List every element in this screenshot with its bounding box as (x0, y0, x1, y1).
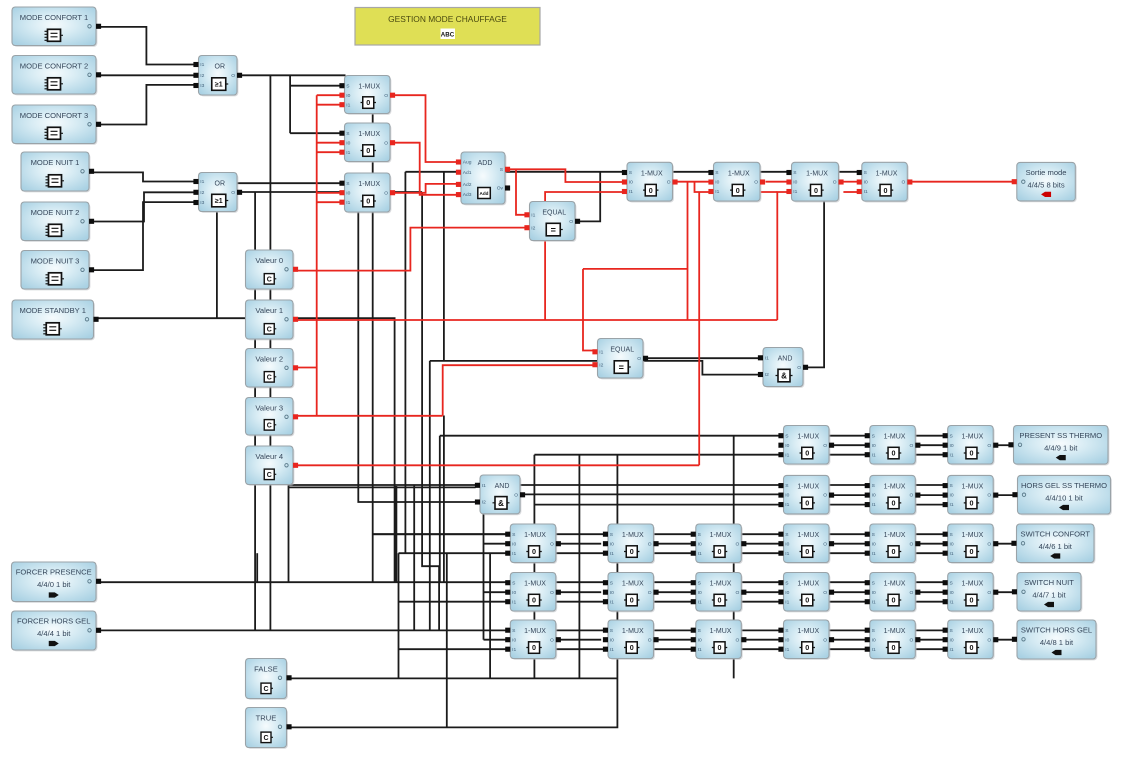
wire EQUAL1 output up (576, 172, 600, 222)
svg-text:=: = (619, 362, 624, 372)
svg-text:0: 0 (532, 596, 536, 605)
wire AND1 output to row2 I0 (525, 493, 779, 495)
red riser to B1.I1 (545, 192, 623, 320)
svg-text:0: 0 (884, 186, 888, 195)
svg-text:Ad1: Ad1 (463, 170, 472, 176)
svg-text:I0: I0 (872, 637, 876, 643)
mux r4c5 (865, 573, 921, 613)
mux r1c6 (943, 426, 999, 466)
wire tap to 1-MUX A1 S (290, 85, 340, 87)
wire row4 mux O to I0 a (556, 591, 602, 593)
svg-text:0: 0 (366, 146, 370, 155)
red B1 fork down to Valeur1 line (687, 182, 689, 320)
svg-text:MODE CONFORT 2: MODE CONFORT 2 (20, 61, 89, 70)
wire MODE CONFORT 1 to OR1.I1 (96, 27, 194, 65)
red B1 output to B2.I0 (678, 181, 709, 183)
svg-text:I1: I1 (512, 599, 516, 605)
svg-text:1-MUX: 1-MUX (358, 131, 380, 138)
wire row5 I1 line (399, 648, 944, 650)
svg-text:FORCER PRESENCE: FORCER PRESENCE (16, 568, 92, 577)
svg-text:Valeur 3: Valeur 3 (255, 403, 283, 412)
wire row4 mux O to I0 d (829, 591, 865, 593)
red A1 output to ADD.Aug (395, 95, 457, 162)
svg-text:I0: I0 (346, 93, 350, 99)
svg-text:1-MUX: 1-MUX (884, 483, 906, 490)
red branch to EQUAL2.I1 (583, 268, 688, 270)
svg-text:MODE NUIT 2: MODE NUIT 2 (31, 208, 80, 217)
svg-text:I0: I0 (698, 541, 702, 547)
svg-text:Sortie mode: Sortie mode (1026, 168, 1067, 177)
mux A2 (339, 123, 395, 163)
red stub to A3.I0 (317, 192, 340, 194)
svg-text:I1: I1 (346, 102, 350, 108)
svg-text:O: O (833, 180, 837, 186)
wire EQUAL2 output to AND2.I1 (644, 357, 759, 359)
mux A1 (339, 76, 395, 115)
svg-text:I1: I1 (872, 599, 876, 605)
svg-text:O: O (909, 541, 913, 547)
wire riser 396 (395, 486, 397, 582)
wire riser 579 (578, 455, 580, 679)
red B4 output to Sortie mode (912, 181, 1012, 183)
svg-text:1-MUX: 1-MUX (962, 434, 984, 441)
wire tap to SWITCH CONFORT S (373, 533, 506, 535)
output SWITCH NUIT (1012, 573, 1083, 613)
svg-text:4/4/4 1 bit: 4/4/4 1 bit (37, 629, 71, 638)
wire row3 mux O to I0 d (829, 543, 865, 545)
input MODE CONFORT 3 (12, 105, 101, 145)
wire row3 I1 line (399, 552, 944, 554)
wire OR1 output riser down (269, 75, 271, 630)
svg-text:I1: I1 (950, 452, 954, 458)
svg-text:MODE CONFORT 3: MODE CONFORT 3 (20, 111, 89, 120)
svg-text:I1: I1 (698, 647, 702, 653)
comparator EQUAL2 (592, 339, 648, 380)
svg-text:O: O (987, 493, 991, 499)
svg-text:C: C (263, 686, 268, 693)
svg-text:MODE NUIT 1: MODE NUIT 1 (31, 158, 80, 167)
or-gate OR2 (193, 173, 242, 213)
mux r5c2 (603, 620, 659, 660)
wire to AND2.I2 (430, 361, 759, 375)
red Valeur 4 riser to B2.I1 line (698, 192, 700, 465)
wire FALSE output line (291, 677, 617, 679)
mux r3c1 (505, 524, 561, 564)
wire MODE NUIT 1 to OR2.I1 (89, 172, 194, 181)
svg-text:0: 0 (718, 596, 722, 605)
svg-text:ABC: ABC (441, 32, 455, 39)
svg-text:I0: I0 (346, 140, 350, 146)
wire TRUE output line (291, 455, 617, 728)
svg-text:1-MUX: 1-MUX (797, 483, 819, 490)
svg-text:I1: I1 (785, 599, 789, 605)
svg-text:I0: I0 (610, 637, 614, 643)
svg-text:1-MUX: 1-MUX (358, 181, 380, 188)
svg-text:I0: I0 (629, 180, 633, 186)
svg-text:I1: I1 (200, 179, 204, 185)
svg-text:1-MUX: 1-MUX (622, 532, 644, 539)
red Valeur 3 line (293, 415, 443, 417)
svg-text:Aug: Aug (463, 160, 472, 166)
wire S-chain riser at 405 (404, 172, 406, 553)
svg-text:4/4/7 1 bit: 4/4/7 1 bit (1032, 591, 1066, 600)
svg-text:Add: Add (480, 191, 489, 196)
mux r4c4 (778, 573, 834, 613)
svg-text:0: 0 (805, 449, 809, 458)
svg-text:0: 0 (532, 547, 536, 556)
svg-text:AND: AND (495, 483, 510, 490)
svg-text:1-MUX: 1-MUX (962, 483, 984, 490)
wire OR1 to A-mux S taps (289, 75, 291, 133)
svg-text:0: 0 (805, 596, 809, 605)
wire row2 to HORS GEL SS THERMO (994, 494, 1014, 496)
wire row2 mux O to I0 a (829, 494, 865, 496)
svg-text:0: 0 (718, 547, 722, 556)
svg-text:I0: I0 (698, 637, 702, 643)
svg-text:I0: I0 (610, 590, 614, 596)
constant TRUE (246, 708, 292, 749)
red tap A2.I0 (317, 142, 340, 144)
svg-text:OR: OR (215, 181, 226, 188)
svg-text:0: 0 (805, 643, 809, 652)
wire row4 to SWITCH NUIT (994, 591, 1014, 593)
and-gate AND1 (475, 475, 525, 515)
mux r3c5 (865, 524, 921, 564)
mux r3c6 (943, 524, 999, 564)
wire S-chain riser at 444 (443, 172, 445, 361)
svg-text:FALSE: FALSE (254, 664, 278, 673)
svg-text:ADD: ADD (478, 160, 493, 167)
wire MODE NUIT 3 to OR2.I3 (89, 202, 194, 270)
svg-text:O: O (384, 140, 388, 146)
wire row1 S riser left (439, 436, 441, 583)
wire AND2 output to B4 S (804, 172, 824, 367)
svg-text:4/4/10 1 bit: 4/4/10 1 bit (1045, 493, 1083, 502)
svg-text:1-MUX: 1-MUX (358, 84, 380, 91)
red Valeur 2 stub (293, 367, 317, 369)
wire row2 S line (289, 484, 944, 486)
mux r5c6 (943, 620, 999, 660)
svg-text:I1: I1 (793, 189, 797, 195)
input MODE CONFORT 2 (12, 56, 101, 96)
svg-text:0: 0 (969, 449, 973, 458)
svg-text:I1: I1 (765, 355, 769, 361)
mux B2 (708, 162, 765, 202)
svg-text:O: O (550, 590, 554, 596)
wire row1 to PRESENT SS THERMO (994, 444, 1009, 446)
wire row1 mux O to I0 b (916, 444, 943, 446)
svg-text:O: O (384, 190, 388, 196)
svg-text:1-MUX: 1-MUX (797, 581, 819, 588)
svg-text:I1: I1 (785, 551, 789, 557)
svg-text:O: O (648, 637, 652, 643)
wire riser 257 (256, 553, 258, 582)
wire row3 S line behind muxes (373, 533, 943, 535)
wire row4 mux O to I0 e (916, 591, 943, 593)
svg-text:O: O (735, 590, 739, 596)
svg-text:I2: I2 (531, 225, 535, 231)
wire row3 to SWITCH CONFORT (994, 543, 1012, 545)
mux r5c4 (778, 620, 834, 660)
svg-text:O: O (909, 637, 913, 643)
red tap A1.I0 (317, 94, 340, 96)
svg-text:SWITCH NUIT: SWITCH NUIT (1024, 578, 1074, 587)
wire S-chain to ADD.Ad1 and B-mux S pins (405, 171, 857, 173)
constant Valeur 3 (246, 398, 299, 437)
input MODE NUIT 3 (21, 251, 94, 291)
output PRESENT SS THERMO (1008, 426, 1109, 466)
wire OR2 output to riser behind A3 (242, 191, 422, 193)
svg-text:0: 0 (366, 197, 370, 206)
svg-text:GESTION MODE CHAUFFAGE: GESTION MODE CHAUFFAGE (388, 14, 507, 24)
mux A3 (339, 173, 395, 213)
red tap A2.I1 (317, 151, 340, 153)
svg-text:PRESENT SS THERMO: PRESENT SS THERMO (1019, 431, 1102, 440)
wire riser 733 FALSE to row1 S (733, 436, 735, 679)
red fork to B2.I1 (695, 182, 709, 192)
svg-text:HORS GEL SS THERMO: HORS GEL SS THERMO (1021, 481, 1107, 490)
svg-text:I2: I2 (200, 190, 204, 196)
svg-text:I0: I0 (950, 493, 954, 499)
svg-text:I1: I1 (872, 647, 876, 653)
svg-text:O: O (384, 93, 388, 99)
svg-text:I1: I1 (950, 647, 954, 653)
mux r4c3 (691, 573, 747, 613)
output Sortie mode (1012, 162, 1077, 202)
mux B4 (857, 162, 913, 202)
svg-text:I1: I1 (715, 189, 719, 195)
svg-text:AND: AND (778, 356, 793, 363)
svg-text:O: O (637, 356, 641, 362)
svg-text:1-MUX: 1-MUX (884, 532, 906, 539)
svg-text:O: O (735, 541, 739, 547)
wire OR2 output riser down left (254, 192, 256, 630)
svg-text:0: 0 (969, 499, 973, 508)
svg-text:Valeur 2: Valeur 2 (255, 354, 283, 363)
wire MODE STANDBY 1 riser to OR2 (216, 212, 218, 318)
wire row5 mux O to I0 e (916, 639, 943, 641)
svg-text:0: 0 (532, 643, 536, 652)
mux r5c3 (691, 620, 747, 660)
wire to 1-MUX A3 S (237, 182, 340, 184)
svg-text:I2: I2 (599, 362, 603, 368)
svg-text:0: 0 (649, 186, 653, 195)
svg-text:I0: I0 (785, 443, 789, 449)
wire FALSE riser for I1 lines (398, 553, 400, 678)
wire row1 S line (440, 435, 943, 437)
svg-text:0: 0 (892, 643, 896, 652)
wire AND1 bottom riser to I0s (483, 514, 485, 640)
wire row4 I0 from riser (484, 591, 507, 593)
mux r2c6 (943, 475, 999, 515)
svg-text:O: O (667, 180, 671, 186)
svg-text:O: O (648, 590, 652, 596)
svg-text:I1: I1 (785, 452, 789, 458)
red Valeur 1 long line (293, 319, 777, 321)
svg-text:I1: I1 (872, 452, 876, 458)
wire row3 mux O to I0 a (556, 543, 602, 545)
svg-text:I3: I3 (200, 200, 204, 206)
svg-text:I0: I0 (872, 541, 876, 547)
mux r2c4 (778, 475, 834, 515)
wire row4 mux O to I0 c (741, 591, 780, 593)
mux B3 (786, 162, 843, 202)
wire row2 I1 line (534, 504, 943, 506)
svg-text:I1: I1 (346, 200, 350, 206)
svg-text:I0: I0 (872, 493, 876, 499)
input MODE NUIT 1 (21, 152, 94, 192)
svg-text:1-MUX: 1-MUX (622, 581, 644, 588)
svg-text:0: 0 (969, 643, 973, 652)
mux r3c3 (691, 524, 747, 564)
and-gate AND2 (758, 348, 808, 388)
svg-text:I1: I1 (785, 647, 789, 653)
svg-text:0: 0 (814, 186, 818, 195)
svg-text:I0: I0 (715, 180, 719, 186)
red B3 output to B4.I0 (843, 181, 857, 183)
svg-text:MODE STANDBY 1: MODE STANDBY 1 (20, 306, 86, 315)
constant Valeur 2 (246, 349, 299, 389)
svg-text:I1: I1 (512, 551, 516, 557)
svg-text:1-MUX: 1-MUX (524, 532, 546, 539)
svg-text:O: O (569, 219, 573, 225)
svg-text:4/4/5 8 bits: 4/4/5 8 bits (1027, 180, 1064, 189)
output SWITCH CONFORT (1011, 524, 1095, 564)
wire riser 430 down (429, 361, 431, 631)
input FORCER PRESENCE (12, 562, 102, 603)
svg-text:≥1: ≥1 (215, 82, 223, 89)
svg-text:1-MUX: 1-MUX (524, 628, 546, 635)
svg-text:OR: OR (215, 64, 226, 71)
svg-text:0: 0 (892, 499, 896, 508)
svg-text:I1: I1 (531, 212, 535, 218)
svg-text:I0: I0 (872, 443, 876, 449)
input MODE CONFORT 1 (12, 7, 101, 47)
red A2 output to ADD.Ad3 (395, 143, 457, 195)
svg-text:O: O (648, 541, 652, 547)
svg-text:0: 0 (969, 547, 973, 556)
svg-text:I0: I0 (512, 637, 516, 643)
svg-text:I0: I0 (872, 590, 876, 596)
svg-text:≥1: ≥1 (215, 198, 223, 205)
wire riser to AND1.I2 (358, 173, 475, 502)
input FORCER HORS GEL (12, 611, 102, 651)
svg-text:C: C (267, 422, 272, 429)
wire tap to 1-MUX A2 S (290, 132, 340, 134)
wire riser 288 to FP line (288, 485, 290, 582)
svg-text:O: O (231, 190, 235, 196)
svg-text:I1: I1 (629, 189, 633, 195)
svg-text:I1: I1 (698, 551, 702, 557)
svg-text:C: C (267, 472, 272, 479)
wire MODE CONFORT 2 to OR1.I2 (96, 74, 194, 76)
svg-text:SWITCH HORS GEL: SWITCH HORS GEL (1021, 626, 1092, 635)
wire row3 mux O to I0 c (741, 543, 780, 545)
svg-text:4/4/6 1 bit: 4/4/6 1 bit (1039, 542, 1073, 551)
svg-text:1-MUX: 1-MUX (710, 581, 732, 588)
svg-text:I1: I1 (200, 62, 204, 68)
wire MODE NUIT 2 to OR2.I2 (89, 192, 194, 221)
wire row1 mux O to I0 a (829, 444, 865, 446)
svg-text:1-MUX: 1-MUX (797, 628, 819, 635)
svg-text:I0: I0 (864, 180, 868, 186)
svg-text:C: C (263, 735, 268, 742)
mux r5c1 (505, 620, 561, 660)
adder ADD (456, 152, 510, 205)
svg-text:O: O (823, 541, 827, 547)
svg-text:I1: I1 (346, 150, 350, 156)
svg-text:I0: I0 (793, 180, 797, 186)
mux r1c5 (865, 426, 921, 466)
wire MODE CONFORT 3 to OR1.I3 (96, 85, 194, 125)
svg-text:1-MUX: 1-MUX (710, 628, 732, 635)
svg-text:1-MUX: 1-MUX (884, 628, 906, 635)
wire row5 mux O to I0 d (829, 639, 865, 641)
svg-text:O: O (901, 180, 905, 186)
svg-text:O: O (823, 443, 827, 449)
svg-text:C: C (267, 276, 272, 283)
svg-text:EQUAL: EQUAL (610, 347, 634, 354)
svg-text:I0: I0 (785, 541, 789, 547)
svg-text:=: = (551, 225, 556, 235)
svg-text:I0: I0 (512, 541, 516, 547)
wire OR2 output riser down right (422, 192, 439, 630)
svg-text:0: 0 (805, 499, 809, 508)
svg-text:I1: I1 (950, 551, 954, 557)
svg-text:C: C (267, 326, 272, 333)
svg-text:0: 0 (366, 98, 370, 107)
svg-text:I1: I1 (950, 502, 954, 508)
wire row1 I1 line (534, 454, 943, 456)
red Valeur 0 to EQUAL1.I2 (293, 228, 525, 271)
svg-text:I2: I2 (200, 73, 204, 79)
wire row3 mux O to I0 e (916, 543, 943, 545)
svg-text:0: 0 (892, 547, 896, 556)
svg-text:0: 0 (736, 186, 740, 195)
svg-text:1-MUX: 1-MUX (884, 434, 906, 441)
mux r3c4 (778, 524, 834, 564)
title box GESTION MODE CHAUFFAGE (355, 8, 540, 46)
svg-text:I0: I0 (785, 590, 789, 596)
mux r2c5 (865, 475, 921, 515)
svg-text:O: O (987, 443, 991, 449)
svg-text:I2: I2 (765, 372, 769, 378)
wire FORCER HORS GEL to row5 S line (101, 629, 943, 631)
red EQUAL2.I1 riser (583, 269, 593, 351)
svg-text:I1: I1 (872, 502, 876, 508)
mux r1c4 (778, 426, 834, 466)
mux r4c2 (603, 573, 659, 613)
wire row5 to SWITCH HORS GEL (994, 639, 1014, 641)
mux r5c5 (865, 620, 921, 660)
red tap A3.I1 (317, 201, 340, 203)
svg-text:Ad3: Ad3 (463, 192, 472, 198)
svg-text:0: 0 (892, 596, 896, 605)
wire MODE STANDBY 1 output (94, 318, 395, 582)
svg-text:O: O (550, 541, 554, 547)
svg-text:O: O (823, 590, 827, 596)
svg-text:1-MUX: 1-MUX (710, 532, 732, 539)
svg-text:O: O (797, 365, 801, 371)
wire riser behind A-muxes to SWITCH CONFORT S (372, 76, 374, 583)
svg-text:1-MUX: 1-MUX (728, 170, 750, 177)
svg-text:I1: I1 (864, 189, 868, 195)
svg-text:I0: I0 (785, 493, 789, 499)
svg-text:I1: I1 (512, 647, 516, 653)
wire row2 mux O to I0 b (916, 494, 943, 496)
wire row3 I0 from riser (484, 543, 507, 545)
wire OR1 output horizontal (242, 74, 346, 76)
